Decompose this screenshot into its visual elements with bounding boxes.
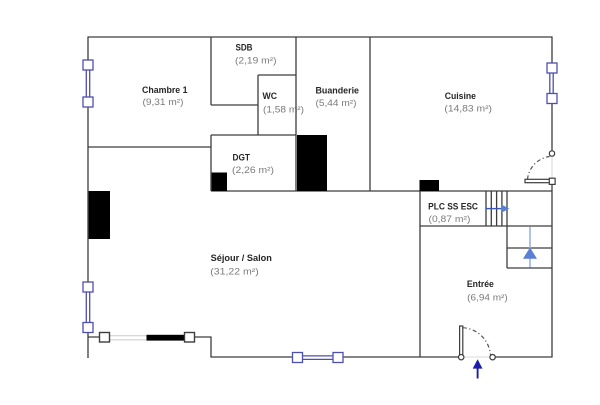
svg-text:PLC SS ESC: PLC SS ESC (428, 202, 478, 212)
svg-text:(31,22 m²): (31,22 m²) (210, 266, 258, 276)
svg-text:(5,44 m²): (5,44 m²) (316, 98, 357, 108)
svg-text:(2,26 m²): (2,26 m²) (232, 165, 274, 175)
svg-text:SDB: SDB (236, 43, 253, 53)
svg-text:Chambre 1: Chambre 1 (142, 85, 188, 95)
svg-text:Buanderie: Buanderie (316, 86, 360, 96)
svg-text:(1,58 m²): (1,58 m²) (263, 105, 304, 115)
svg-text:(9,31 m²): (9,31 m²) (143, 97, 184, 107)
svg-text:Séjour / Salon: Séjour / Salon (211, 253, 273, 263)
svg-text:(2,19 m²): (2,19 m²) (235, 56, 277, 66)
svg-text:Entrée: Entrée (467, 279, 494, 289)
svg-text:(6,94 m²): (6,94 m²) (467, 292, 508, 302)
svg-text:DGT: DGT (233, 153, 251, 163)
svg-text:(0,87 m²): (0,87 m²) (429, 214, 471, 224)
svg-text:WC: WC (263, 91, 278, 101)
svg-text:(14,83 m²): (14,83 m²) (444, 103, 492, 113)
svg-text:Cuisine: Cuisine (445, 91, 476, 101)
